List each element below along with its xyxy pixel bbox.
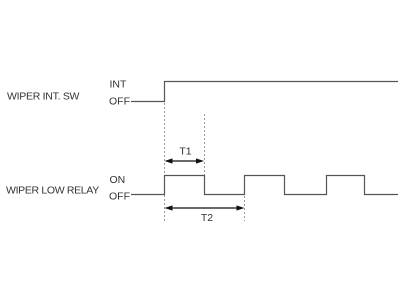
svg-text:T2: T2 [201, 212, 213, 224]
svg-text:OFF: OFF [109, 96, 130, 108]
svg-text:INT: INT [110, 79, 128, 91]
svg-text:T1: T1 [179, 146, 191, 158]
svg-text:ON: ON [110, 174, 126, 186]
svg-text:WIPER INT. SW: WIPER INT. SW [7, 91, 80, 103]
svg-text:WIPER LOW RELAY: WIPER LOW RELAY [6, 185, 99, 197]
svg-text:OFF: OFF [109, 191, 130, 203]
